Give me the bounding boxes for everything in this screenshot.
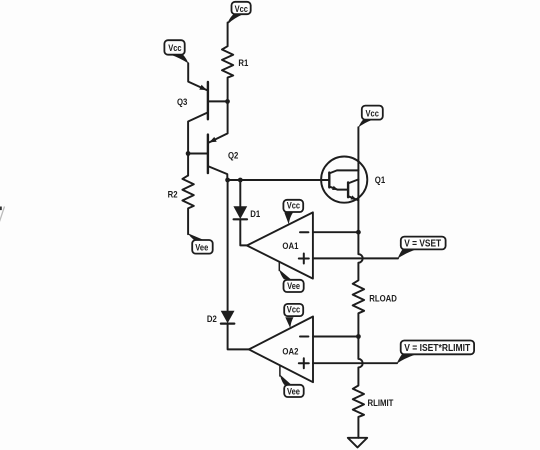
svg-text:Q1: Q1 (375, 174, 386, 185)
svg-text:Q3: Q3 (177, 96, 188, 107)
svg-text:Vee: Vee (287, 386, 300, 397)
svg-text:OA1: OA1 (282, 240, 298, 251)
svg-text:Vcc: Vcc (235, 3, 249, 14)
svg-text:Vee: Vee (195, 242, 208, 253)
svg-text:Vcc: Vcc (365, 108, 379, 119)
svg-text:D2: D2 (207, 313, 217, 324)
svg-text:R1: R1 (238, 57, 248, 68)
svg-text:Vcc: Vcc (168, 42, 182, 53)
svg-text:D1: D1 (250, 208, 260, 219)
svg-text:V = ISET*RLIMIT: V = ISET*RLIMIT (404, 342, 470, 354)
svg-text:V = VSET: V = VSET (404, 238, 441, 249)
svg-text:RLIMIT: RLIMIT (368, 397, 395, 408)
svg-text:R2: R2 (168, 189, 178, 200)
svg-text:Q2: Q2 (228, 150, 239, 161)
svg-text:Vee: Vee (287, 280, 300, 291)
svg-text:Vcc: Vcc (287, 304, 301, 315)
svg-text:OA2: OA2 (282, 346, 298, 357)
svg-text:RLOAD: RLOAD (369, 293, 397, 304)
svg-text:Vcc: Vcc (287, 200, 301, 211)
